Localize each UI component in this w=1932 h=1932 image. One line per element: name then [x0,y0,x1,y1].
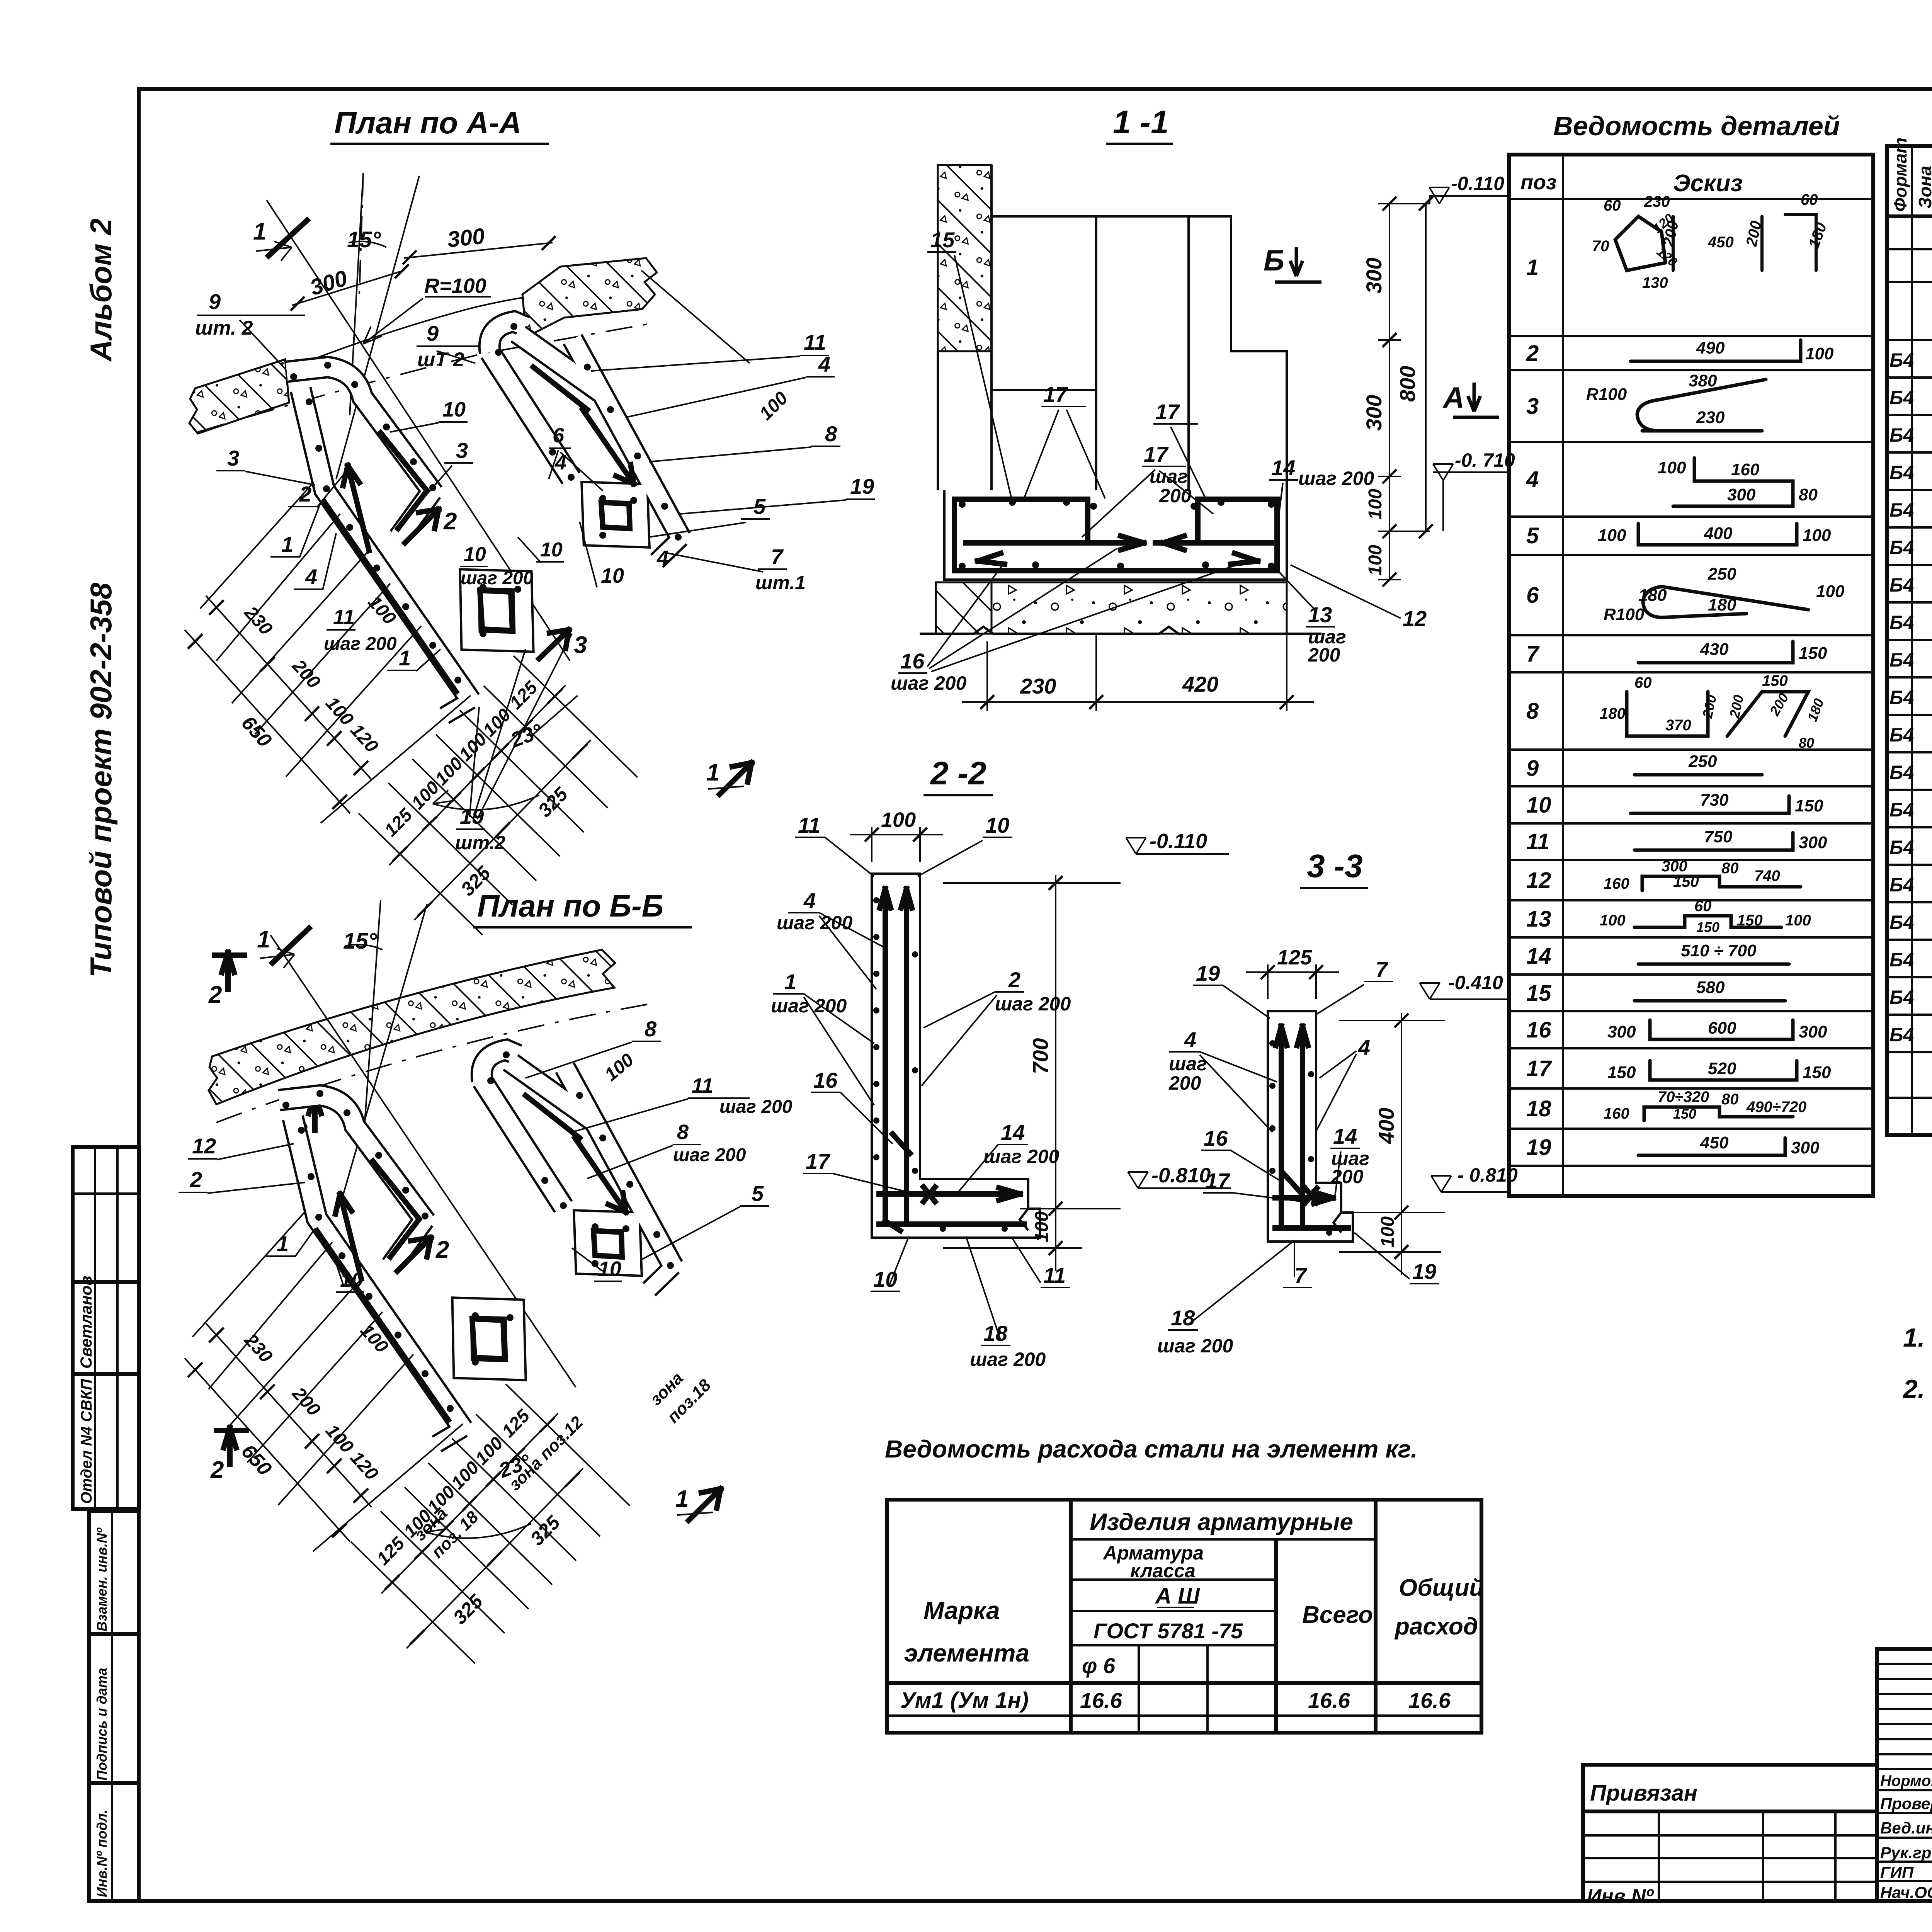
svg-text:Б: Б [1264,244,1284,277]
svg-text:ГОСТ 5781 -75: ГОСТ 5781 -75 [1094,1619,1243,1643]
svg-text:450: 450 [1700,1133,1729,1152]
svg-text:-0.810: -0.810 [1151,1164,1211,1187]
svg-text:4: 4 [803,888,816,913]
svg-text:150: 150 [1762,672,1788,689]
hatch band right [522,258,657,337]
title: 1-1 [1106,104,1173,144]
svg-text:200: 200 [1168,1072,1201,1094]
svg-text:100: 100 [1598,526,1626,545]
svg-text:15: 15 [930,228,955,252]
section 3-3 drawing [1157,946,1518,1357]
svg-text:10: 10 [464,543,486,566]
svg-text:шаг 200: шаг 200 [995,993,1071,1015]
svg-text:1: 1 [1526,255,1539,280]
svg-text:Б4: Б4 [1889,874,1914,896]
svg-text:230: 230 [1644,193,1670,210]
title block [1877,1649,1932,1904]
svg-text:Б4: Б4 [1889,986,1914,1008]
axis dashed [198,324,649,432]
svg-text:Светланов: Светланов [77,1276,95,1369]
svg-text:19: 19 [850,474,874,498]
svg-text:R100: R100 [1586,385,1627,404]
svg-text:1: 1 [277,1231,289,1256]
Plan Б-Б drawing [179,900,793,1663]
mark 1 bottom-right [689,1489,721,1520]
svg-text:Типовой проект 902-2-358: Типовой проект 902-2-358 [84,582,118,978]
svg-text:Ведомость расхода стали на эле: Ведомость расхода стали на элемент кг. [885,1435,1418,1463]
svg-text:3: 3 [574,632,587,658]
23 deg [433,795,539,810]
svg-text:Проверил: Проверил [1880,1794,1932,1813]
svg-text:430: 430 [1700,640,1729,659]
svg-text:2 -2: 2 -2 [930,755,986,791]
mark А [1442,381,1499,417]
hatch band left [189,359,289,434]
svg-text:60: 60 [1634,674,1652,691]
section mark 1 [272,928,309,963]
svg-text:Б4: Б4 [1889,649,1914,671]
construction lines [363,900,381,1144]
svg-text:1.: 1. [1903,1323,1925,1352]
svg-text:Б4: Б4 [1889,724,1914,746]
sketch row 13 [1634,916,1781,927]
sketch row 10 [1631,796,1789,813]
svg-text:80: 80 [1721,1091,1739,1108]
svg-text:10: 10 [1526,793,1551,818]
svg-text:730: 730 [1700,791,1729,810]
svg-text:поз: поз [1520,171,1557,194]
svg-text:3: 3 [456,438,468,463]
svg-text:3: 3 [227,446,239,470]
svg-text:8: 8 [677,1121,689,1144]
svg-text:5: 5 [1526,523,1539,548]
svg-text:300: 300 [1791,1138,1820,1157]
svg-text:100: 100 [1803,526,1831,545]
svg-text:1: 1 [257,926,270,953]
svg-text:100: 100 [1805,344,1834,363]
svg-text:шаг 200: шаг 200 [324,634,397,654]
svg-text:70÷320: 70÷320 [1658,1088,1709,1105]
svg-text:План по Б-Б: План по Б-Б [477,889,663,923]
svg-text:Б4: Б4 [1889,612,1914,633]
svg-text:600: 600 [1708,1019,1736,1037]
svg-text:Взамен. инв.Nº: Взамен. инв.Nº [94,1527,110,1631]
svg-text:Общий: Общий [1399,1575,1484,1601]
base gravel band [936,582,1287,634]
svg-text:11: 11 [804,330,826,354]
title: 3-3 [1300,848,1368,888]
svg-text:160: 160 [1731,460,1760,479]
svg-text:230: 230 [1020,674,1056,698]
svg-text:17: 17 [1043,382,1068,406]
section 2-2 drawing [771,808,1231,1370]
svg-text:18: 18 [1171,1306,1195,1330]
mark Б [1264,244,1321,282]
svg-text:800: 800 [1395,366,1420,402]
svg-text:250: 250 [1688,752,1717,771]
svg-text:1: 1 [784,969,796,994]
svg-text:300: 300 [1362,395,1386,431]
svg-text:60: 60 [1604,197,1621,214]
svg-text:шаг 200: шаг 200 [461,568,534,588]
svg-text:700: 700 [1028,1038,1053,1074]
svg-text:370: 370 [1665,717,1691,734]
left sidebar upper stamp table [73,1147,139,1509]
svg-text:Б4: Б4 [1889,949,1914,971]
svg-text:Привязан: Привязан [1590,1781,1697,1806]
svg-text:элемента: элемента [904,1639,1029,1667]
svg-text:18: 18 [1526,1096,1551,1121]
svg-text:шт. 2: шт. 2 [195,317,253,339]
svg-text:Б4: Б4 [1889,837,1914,858]
svg-text:70: 70 [1592,238,1609,255]
svg-text:200: 200 [1159,485,1192,507]
axis dashed [216,1003,657,1122]
svg-text:16: 16 [1204,1126,1228,1150]
svg-text:80: 80 [1799,485,1818,504]
svg-text:Б4: Б4 [1889,424,1914,446]
svg-text:100: 100 [1365,489,1386,520]
svg-text:11: 11 [692,1074,713,1097]
svg-text:16.6: 16.6 [1308,1688,1350,1713]
svg-text:100: 100 [1658,458,1686,477]
svg-text:11: 11 [1526,829,1549,854]
svg-text:-0.110: -0.110 [1150,830,1207,853]
svg-text:Б4: Б4 [1889,537,1914,558]
svg-text:160: 160 [1604,1105,1629,1122]
svg-text:8: 8 [645,1017,657,1041]
svg-text:150: 150 [1803,1063,1831,1082]
sketch row 14 [1638,963,1789,966]
elements reused [279,1050,674,1444]
svg-text:100: 100 [1785,912,1811,929]
svg-text:А: А [1442,381,1464,414]
svg-text:740: 740 [1754,867,1780,884]
svg-text:шаг 200: шаг 200 [970,1349,1046,1370]
svg-text:19: 19 [1196,961,1220,985]
svg-text:17: 17 [1155,400,1180,424]
svg-text:Б4: Б4 [1889,574,1914,596]
svg-text:300: 300 [1799,833,1827,852]
svg-text:-0. 710: -0. 710 [1455,449,1515,471]
svg-text:6: 6 [553,424,565,447]
level -0.110 [1429,187,1507,204]
svg-text:4: 4 [1358,1035,1370,1060]
svg-text:10: 10 [442,398,466,421]
sketch row 15 [1634,999,1785,1003]
svg-text:R100: R100 [1604,605,1645,624]
wall outline [938,165,992,490]
svg-text:шт.2: шт.2 [455,832,505,854]
svg-text:14: 14 [1271,456,1295,480]
svg-text:14: 14 [1333,1124,1357,1148]
svg-text:Б4: Б4 [1889,462,1914,483]
Plan A-A drawing [185,173,875,1145]
svg-text:15°: 15° [347,227,381,252]
svg-text:Рук.гр.: Рук.гр. [1880,1844,1932,1862]
svg-text:Зона: Зона [1915,166,1932,209]
svg-text:Б4: Б4 [1889,387,1914,408]
svg-text:150: 150 [1673,1106,1696,1122]
svg-text:400: 400 [1374,1108,1398,1144]
sketch row 17 [1650,1061,1797,1080]
svg-text:4: 4 [1526,467,1539,492]
svg-text:Б4: Б4 [1889,349,1914,371]
svg-text:19: 19 [1526,1135,1551,1160]
svg-text:490: 490 [1696,338,1725,357]
specification table (right) [1887,138,1932,1135]
svg-text:шаг 200: шаг 200 [719,1097,793,1117]
title: План по А-А [330,105,549,144]
svg-text:11: 11 [798,813,820,837]
elements Ум1 channels [287,321,682,716]
svg-text:7: 7 [771,544,784,569]
sketch row 5 [1638,524,1797,545]
dim fan B-B right [381,1413,558,1594]
svg-text:16: 16 [900,649,925,673]
svg-text:3 -3: 3 -3 [1307,848,1363,884]
svg-text:Инв.Nº: Инв.Nº [1587,1885,1654,1908]
svg-text:17: 17 [1206,1168,1231,1193]
svg-text:2: 2 [210,1457,224,1483]
svg-text:80: 80 [1721,860,1739,877]
dim 230/420 [962,580,1314,711]
svg-text:Б4: Б4 [1889,799,1914,821]
svg-text:Изделия арматурные: Изделия арматурные [1090,1509,1353,1536]
svg-text:520: 520 [1708,1059,1736,1078]
mark 2 bottom-left [222,952,234,989]
section mark 1 [269,220,307,256]
svg-text:10: 10 [598,1257,621,1281]
svg-text:150: 150 [1696,919,1719,935]
svg-text:1: 1 [675,1486,689,1512]
sketch row 12 [1642,876,1801,891]
svg-text:100: 100 [1365,545,1386,576]
svg-text:2: 2 [435,1236,449,1263]
hatch arc band [209,950,615,1104]
svg-text:-0.110: -0.110 [1451,173,1504,194]
svg-text:Альбом 2: Альбом 2 [84,218,118,362]
svg-text:11: 11 [1043,1263,1066,1287]
svg-text:180: 180 [1638,586,1667,605]
sketch row 7 [1638,641,1793,663]
svg-text:10: 10 [873,1267,897,1291]
svg-text:Отдел N4 СВКП: Отдел N4 СВКП [78,1379,95,1504]
svg-text:750: 750 [1704,827,1733,846]
svg-text:17: 17 [806,1149,831,1173]
level -0.710 [1433,464,1507,480]
svg-text:Нач.ОСП.: Нач.ОСП. [1880,1883,1932,1901]
svg-text:-0.410: -0.410 [1448,972,1503,993]
foundation outline [944,490,1287,580]
svg-text:1: 1 [706,759,719,786]
sketch row 4 [1673,458,1793,506]
svg-text:10: 10 [540,539,563,561]
svg-text:шаг 200: шаг 200 [777,912,852,934]
svg-text:Б4: Б4 [1889,687,1914,708]
svg-text:1: 1 [399,646,411,670]
sketch row 9 [1634,773,1762,777]
svg-text:класса: класса [1130,1560,1196,1582]
svg-text:План по А-А: План по А-А [334,105,522,140]
sketch row 11 [1634,833,1793,850]
svg-text:510 ÷ 700: 510 ÷ 700 [1681,941,1757,960]
svg-text:16: 16 [1526,1017,1551,1043]
svg-text:шаг 200: шаг 200 [1157,1335,1233,1357]
svg-text:300: 300 [1799,1022,1827,1041]
svg-text:шаг: шаг [1150,466,1188,487]
dim fan A-A left [206,596,371,779]
svg-text:400: 400 [1704,524,1733,543]
svg-text:11: 11 [333,605,355,629]
svg-text:Б4: Б4 [1889,1024,1914,1046]
svg-text:10: 10 [985,813,1009,837]
svg-text:200: 200 [1331,1166,1364,1187]
svg-text:230: 230 [1696,408,1725,427]
svg-text:2: 2 [208,981,222,1008]
svg-text:2: 2 [1526,341,1539,366]
svg-text:16.6: 16.6 [1408,1688,1451,1713]
wall hatch strip [938,165,992,351]
svg-text:250: 250 [1708,565,1736,583]
svg-text:1: 1 [281,532,293,556]
svg-text:300: 300 [1662,858,1687,875]
mark 3 bottom [309,1094,321,1130]
svg-text:60: 60 [1694,898,1712,915]
svg-text:Формат: Формат [1890,138,1910,212]
svg-text:17: 17 [1526,1056,1552,1081]
svg-text:4: 4 [656,546,668,570]
svg-text:ГИП: ГИП [1880,1863,1914,1881]
svg-text:8: 8 [1526,699,1539,724]
svg-text:200: 200 [1308,644,1340,666]
title: План по Б-Б [473,889,692,927]
svg-text:4: 4 [305,565,317,589]
svg-text:7: 7 [1526,641,1540,667]
svg-text:9: 9 [1526,756,1539,781]
svg-text:580: 580 [1696,978,1725,997]
svg-text:100: 100 [881,808,916,832]
steel consumption table [887,1500,1484,1733]
sketch row 1 [1615,216,1665,270]
svg-text:2.: 2. [1902,1374,1925,1404]
svg-text:Ведомость деталей: Ведомость деталей [1553,111,1840,141]
svg-text:2: 2 [190,1167,202,1192]
svg-text:шаг 200: шаг 200 [891,672,966,694]
svg-text:15°: 15° [343,929,378,954]
rebar thick bars [480,590,512,631]
dim 800 [1425,204,1427,531]
svg-text:Нормоконт: Нормоконт [1880,1772,1932,1789]
sketch row 6 [1643,587,1808,617]
svg-text:380: 380 [1689,371,1717,390]
svg-text:16.6: 16.6 [1080,1688,1122,1713]
svg-text:Вед.инж.: Вед.инж. [1880,1819,1932,1837]
svg-text:2: 2 [299,482,311,506]
svg-text:расход: расход [1394,1613,1478,1640]
svg-text:2: 2 [1008,968,1020,992]
svg-text:150: 150 [1607,1063,1636,1082]
sketch row 16 [1650,1020,1793,1039]
svg-text:300: 300 [446,223,486,252]
svg-text:19: 19 [1412,1259,1436,1284]
svg-text:шаг 200: шаг 200 [673,1145,746,1165]
svg-text:Инв.Nº подл.: Инв.Nº подл. [94,1810,110,1897]
svg-text:5: 5 [752,1181,764,1206]
svg-text:7: 7 [1294,1263,1308,1287]
svg-text:φ 6: φ 6 [1082,1653,1116,1678]
svg-text:Марка: Марка [923,1597,1000,1624]
svg-text:100: 100 [1600,912,1626,929]
svg-text:Подпись и дата: Подпись и дата [94,1668,110,1781]
svg-text:17: 17 [1144,442,1169,466]
svg-text:1 -1: 1 -1 [1113,104,1169,140]
section mark 2 inside [397,1238,431,1271]
svg-text:1: 1 [253,218,266,245]
svg-text:8: 8 [825,422,837,446]
svg-text:15: 15 [1526,981,1551,1006]
svg-text:100: 100 [1816,582,1845,601]
svg-text:9: 9 [427,321,439,345]
svg-text:150: 150 [1795,796,1823,815]
svg-text:7: 7 [1376,957,1389,981]
svg-text:Б4: Б4 [1889,762,1914,783]
section 1-1 drawing [891,165,1515,711]
wall contour [288,298,524,369]
svg-text:10: 10 [601,564,624,587]
svg-text:125: 125 [1277,946,1312,969]
wall dots [290,373,297,380]
svg-text:180: 180 [1708,595,1736,614]
svg-text:19: 19 [460,804,484,828]
sketch row 18 [1644,1107,1793,1121]
sketch row 2 [1631,340,1801,361]
svg-text:80: 80 [1799,735,1814,751]
svg-text:490÷720: 490÷720 [1746,1099,1806,1116]
svg-text:14: 14 [1526,944,1551,969]
svg-text:3: 3 [1526,394,1539,419]
Привязан sub-table [1583,1765,1877,1908]
dim fan B-B left [206,1323,371,1507]
dim chain 300/300/100/100 [1378,204,1430,580]
sketch row 3 [1642,429,1762,433]
mark 1 bottom-right [719,763,752,794]
svg-text:Эскиз: Эскиз [1673,170,1743,197]
svg-text:13: 13 [1526,906,1551,932]
svg-text:шт.1: шт.1 [755,572,806,594]
section mark 2 [405,509,439,543]
dim fan A-A right [389,685,566,865]
parts sketch table (Ведомость деталей) [1509,155,1873,1196]
sketch row 19 [1638,1138,1785,1155]
svg-text:Ум1 (Ум 1н): Ум1 (Ум 1н) [900,1688,1029,1713]
svg-text:Всего: Всего [1302,1602,1373,1628]
svg-text:450: 450 [1708,234,1734,251]
svg-text:Б4: Б4 [1889,912,1914,933]
svg-text:150: 150 [1673,873,1699,890]
svg-text:300: 300 [1607,1022,1636,1041]
svg-text:12: 12 [192,1134,216,1158]
svg-text:4: 4 [1184,1027,1196,1052]
svg-text:Б4: Б4 [1889,499,1914,521]
svg-text:100: 100 [1378,1216,1398,1247]
svg-text:2: 2 [443,508,457,535]
svg-text:А Ш: А Ш [1155,1583,1200,1609]
mark 2 bottom-left [224,1428,236,1464]
svg-text:6: 6 [1526,583,1539,608]
svg-text:130: 130 [1642,274,1668,291]
svg-text:16: 16 [813,1068,838,1092]
